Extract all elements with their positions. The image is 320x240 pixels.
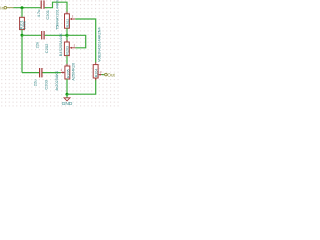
svg-text:22n: 22n [34, 42, 39, 49]
wire bottom-left horizontal [22, 72, 39, 74]
wiper arrow R205 (from left) [61, 72, 64, 74]
resistor R201 [20, 17, 27, 29]
capacitor C202 [34, 31, 49, 53]
wire R205 bottom to ground rail [66, 79, 68, 94]
svg-text:4n2025AK4: 4n2025AK4 [55, 71, 59, 91]
wire R201 to mid rail [21, 30, 23, 36]
svg-text:R204: R204 [95, 69, 99, 78]
svg-text:R203: R203 [66, 46, 70, 55]
trimmer R204 [93, 27, 102, 80]
wire junction down to R201 [21, 8, 23, 18]
wire ground rail to R204 bottom [67, 78, 96, 94]
wiper arrow R203 [71, 47, 75, 49]
In port [4, 6, 14, 9]
svg-text:GND: GND [62, 101, 73, 107]
svg-text:Out: Out [107, 72, 115, 77]
capacitor C203 [33, 68, 49, 90]
wire left column down [21, 35, 23, 72]
wire R202 bottom to mid junction [66, 28, 68, 42]
svg-text:In: In [0, 6, 4, 11]
node junction mid-left [21, 34, 24, 37]
wire mid rail right [45, 34, 67, 36]
ground [62, 94, 73, 107]
wire R203 bottom to R205 top [66, 56, 68, 66]
trimmer R205 [55, 63, 75, 91]
svg-text:A2504K20: A2504K20 [72, 63, 76, 81]
svg-text:T5M4AY20144K4: T5M4AY20144K4 [56, 0, 60, 30]
wire C203 to R205 wiper [43, 72, 61, 74]
node junction mid-center [66, 34, 69, 37]
svg-text:C203: C203 [43, 79, 48, 89]
svg-text:22u: 22u [33, 80, 38, 87]
capacitor C201 [36, 0, 50, 19]
svg-text:R202: R202 [66, 19, 70, 28]
svg-text:100k: 100k [23, 21, 27, 29]
svg-text:4.7u: 4.7u [36, 10, 41, 18]
svg-text:V0B2N42014AK2N4: V0B2N42014AK2N4 [97, 27, 101, 62]
wire mid rail left [22, 34, 41, 36]
svg-text:R205: R205 [66, 69, 70, 78]
wire C201 to R202 top (jog) [45, 2, 67, 13]
svg-text:C201: C201 [45, 9, 50, 19]
svg-text:C202: C202 [44, 43, 49, 53]
Out port [104, 73, 108, 76]
wire In to C201 [14, 7, 41, 9]
svg-text:B4S205A44K: B4S205A44K [59, 33, 63, 56]
node junction ground [66, 93, 69, 96]
wire R202 wiper to right column [75, 19, 96, 63]
trimmer R202 [56, 0, 76, 30]
node junction at input [21, 6, 24, 9]
trimmer R203 [59, 33, 76, 58]
wire loop junction to R203 wiper [67, 35, 86, 48]
wiper arrow R204 [100, 74, 102, 76]
wire R204 wiper to Out [102, 74, 104, 76]
wiper arrow R202 [71, 18, 75, 20]
